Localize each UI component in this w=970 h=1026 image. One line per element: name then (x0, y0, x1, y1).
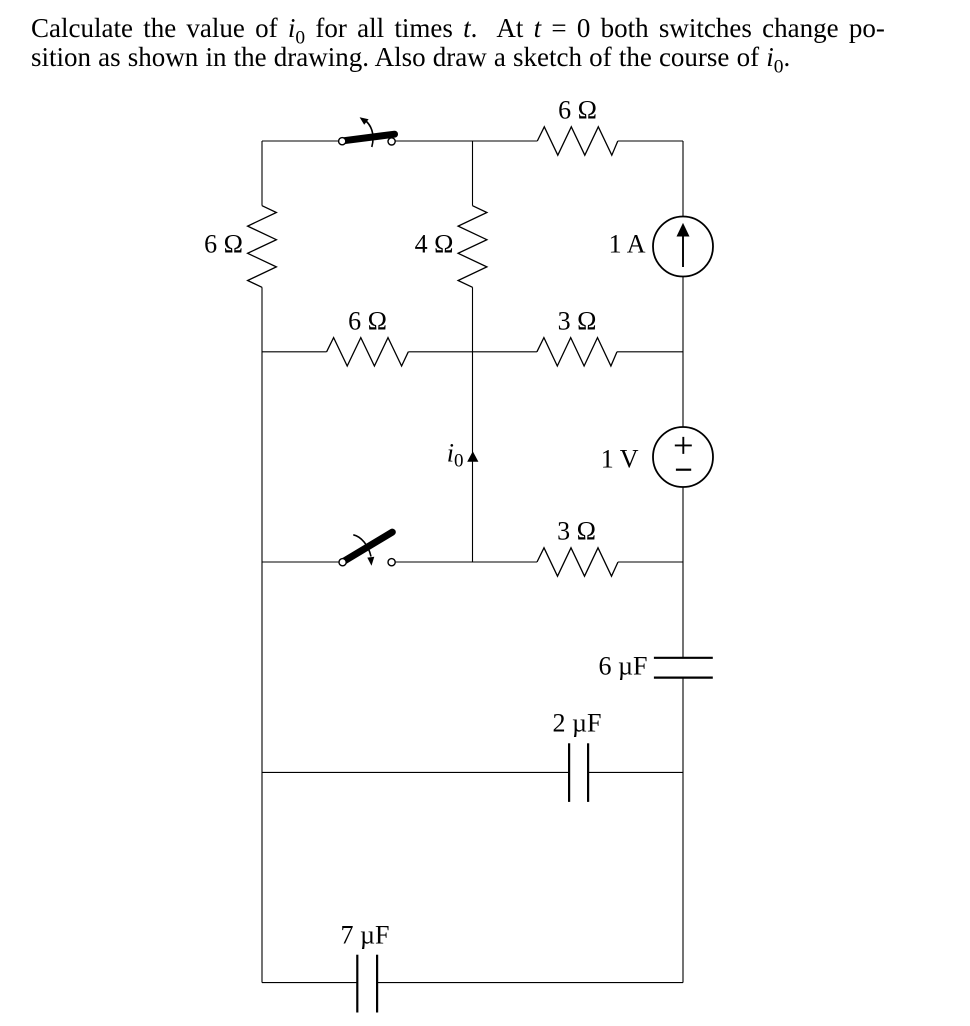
wire top row left segment (262, 140, 339, 142)
wire row2 middle (408, 351, 537, 353)
wire left vertical upper (261, 141, 263, 206)
wire middle vertical lower (472, 287, 474, 562)
resistor 6ohm top (537, 127, 618, 155)
capacitor C2 2uF plates (568, 743, 570, 802)
switch S2 left contact (339, 559, 346, 566)
wire left vertical lower (261, 287, 263, 982)
wire row3 right (618, 561, 683, 563)
switch S2 bar (open, closing) (343, 532, 392, 562)
voltage source V1 minus sign (676, 469, 691, 471)
svg-text:1 V: 1 V (601, 445, 639, 474)
voltage source V1 circle (653, 427, 713, 487)
wire row2 left (262, 351, 327, 353)
switch S1 bar (closed, opening) (343, 134, 395, 141)
capacitor C1 6uF plates (654, 657, 713, 659)
wire right vertical top (682, 141, 684, 216)
resistor 3ohm row2 (537, 338, 617, 366)
svg-text:6 Ω: 6 Ω (348, 307, 387, 336)
wire bottom row left of 7uF (262, 982, 357, 984)
resistor 4ohm middle vertical (458, 206, 487, 288)
svg-text:4 Ω: 4 Ω (415, 230, 454, 259)
current source I1 circle (653, 217, 713, 277)
resistor 6ohm row2 (327, 338, 409, 366)
current source I1 arrow (682, 235, 684, 267)
wire row3 middle (395, 561, 537, 563)
wire row2 right (617, 351, 683, 353)
wire right vertical below 6uF (682, 678, 684, 983)
switch S1 opening arrow (366, 121, 373, 147)
voltage source V1 plus sign (675, 437, 692, 454)
svg-text:6 µF: 6 µF (599, 652, 648, 681)
switch S2 right contact (388, 559, 395, 566)
switch S1 left contact (339, 138, 346, 145)
resistor 6ohm left vertical (248, 206, 277, 288)
svg-text:2 µF: 2 µF (553, 709, 602, 738)
wire row3 left (262, 561, 339, 563)
resistor 3ohm row3 (537, 548, 618, 576)
wire right vertical below 1V to 6uF (682, 487, 684, 658)
wire right vertical between sources (682, 277, 684, 428)
wire top row right of switch to resistor (395, 140, 537, 142)
svg-text:i0: i0 (447, 439, 464, 472)
wire row4 left of 2uF (262, 771, 569, 773)
svg-text:6 Ω: 6 Ω (558, 95, 597, 124)
switch S2 closing arrow (353, 535, 371, 557)
current i0 arrowhead (467, 451, 478, 462)
svg-text:1 A: 1 A (609, 230, 646, 259)
svg-text:6 Ω: 6 Ω (204, 230, 243, 259)
problem statement text (31, 0, 931, 1)
svg-text:7 µF: 7 µF (341, 921, 390, 950)
svg-text:3 Ω: 3 Ω (558, 307, 597, 336)
wire row4 right of 2uF (588, 771, 683, 773)
switch S1 right contact (388, 138, 395, 145)
wire bottom row right of 7uF (377, 982, 683, 984)
wire top row after resistor to right corner (618, 140, 683, 142)
capacitor C3 7uF plates (356, 955, 358, 1013)
svg-text:3 Ω: 3 Ω (557, 517, 596, 546)
wire middle vertical upper (472, 141, 474, 206)
